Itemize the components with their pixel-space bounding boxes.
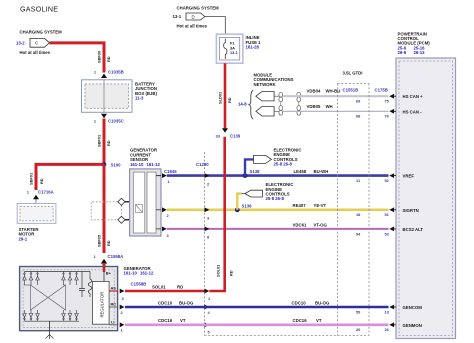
svg-text:SBF01: SBF01 bbox=[97, 134, 102, 147]
svg-text:RD: RD bbox=[177, 284, 183, 289]
svg-text:11: 11 bbox=[356, 178, 361, 183]
wire SBF05 RD (S100 to C1558A) bbox=[97, 164, 112, 253]
svg-text:SIGRTN: SIGRTN bbox=[403, 208, 419, 213]
branch wire to EEC connector 2 bbox=[237, 194, 245, 210]
svg-text:HS CAN -: HS CAN - bbox=[403, 109, 423, 114]
svg-text:SOL01: SOL01 bbox=[216, 264, 221, 277]
wire SBF01 RD branch to starter motor bbox=[29, 164, 105, 190]
generator output arrows and pins bbox=[120, 289, 125, 333]
svg-text:CHARGING SYSTEM: CHARGING SYSTEM bbox=[177, 6, 220, 11]
svg-text:VT: VT bbox=[180, 318, 186, 323]
svg-text:29-1: 29-1 bbox=[19, 236, 28, 241]
regulator to pins lines bbox=[109, 286, 118, 325]
svg-text:LI: LI bbox=[111, 319, 114, 324]
svg-text:LE458: LE458 bbox=[294, 169, 307, 174]
regulator U1 bbox=[92, 281, 109, 324]
wire RE407 YE-VT (SIGRTN) bbox=[167, 203, 389, 210]
generator ground bbox=[46, 321, 54, 339]
svg-text:VDB04: VDB04 bbox=[307, 89, 321, 94]
svg-text:CDC10: CDC10 bbox=[158, 300, 173, 305]
svg-text:WH: WH bbox=[326, 104, 333, 109]
splice node S138 bbox=[243, 169, 261, 178]
pin numbers columns bbox=[356, 99, 390, 333]
svg-text:C1035B: C1035B bbox=[108, 70, 124, 75]
svg-text:13-1: 13-1 bbox=[230, 50, 239, 55]
connector C1558A bbox=[93, 254, 123, 267]
svg-text:59: 59 bbox=[356, 309, 361, 314]
connector C1280 dashed line bbox=[196, 152, 209, 336]
svg-text:VDB05: VDB05 bbox=[307, 104, 321, 109]
svg-text:RD: RD bbox=[229, 270, 234, 276]
svg-text:3.5L GTDI: 3.5L GTDI bbox=[343, 71, 363, 76]
svg-text:2: 2 bbox=[121, 310, 124, 315]
svg-text:BCS2 ALT: BCS2 ALT bbox=[403, 227, 424, 232]
generator diode bridge top row bbox=[23, 272, 90, 281]
clamp diamond upper bbox=[118, 198, 131, 205]
svg-text:1: 1 bbox=[93, 254, 96, 259]
svg-text:GENMON: GENMON bbox=[403, 323, 422, 328]
svg-text:1: 1 bbox=[121, 327, 124, 332]
splice node S136 bbox=[235, 204, 252, 213]
svg-text:25-8 26-8: 25-8 26-8 bbox=[274, 162, 293, 167]
wire VDB05 WH (HS CAN -) bbox=[283, 104, 389, 112]
svg-text:2: 2 bbox=[167, 213, 170, 218]
svg-text:HS CAN +: HS CAN + bbox=[403, 94, 424, 99]
svg-text:GASOLINE: GASOLINE bbox=[20, 5, 58, 13]
svg-text:Hot at all times: Hot at all times bbox=[20, 50, 51, 55]
svg-text:SBF01: SBF01 bbox=[29, 172, 34, 185]
svg-text:B+: B+ bbox=[106, 270, 112, 275]
svg-text:13: 13 bbox=[385, 309, 390, 314]
wire CDC16 VT (LI to GENMON) bbox=[125, 318, 389, 325]
EEC connector 2 (points left) bbox=[245, 182, 294, 201]
svg-text:RD: RD bbox=[227, 97, 232, 103]
svg-text:26: 26 bbox=[356, 327, 361, 332]
svg-text:D: D bbox=[192, 14, 195, 19]
svg-text:161-12: 161-12 bbox=[140, 271, 154, 276]
svg-text:33: 33 bbox=[216, 133, 221, 138]
svg-text:VT: VT bbox=[316, 318, 322, 323]
svg-text:18: 18 bbox=[356, 212, 361, 217]
generator diode terminal circles bbox=[24, 273, 78, 320]
current sensor clamp dashed loop bbox=[91, 202, 121, 220]
svg-text:68: 68 bbox=[356, 114, 361, 119]
svg-text:VT-OG: VT-OG bbox=[314, 222, 328, 227]
svg-text:75: 75 bbox=[385, 99, 390, 104]
wire SLD01 RD (fuse to C139) bbox=[218, 63, 233, 128]
clamp diamond lower bbox=[118, 216, 131, 223]
svg-text:C1558B: C1558B bbox=[131, 281, 147, 286]
svg-text:3: 3 bbox=[167, 233, 170, 238]
svg-text:161-10: 161-10 bbox=[124, 271, 138, 276]
svg-text:RE407: RE407 bbox=[293, 203, 307, 208]
svg-text:YE-VT: YE-VT bbox=[314, 203, 327, 208]
title GASOLINE bbox=[20, 5, 58, 13]
brace bbox=[249, 90, 253, 119]
svg-text:161-10: 161-10 bbox=[130, 162, 144, 167]
svg-text:RD: RD bbox=[106, 56, 111, 62]
svg-text:C175B: C175B bbox=[375, 87, 388, 92]
svg-text:1: 1 bbox=[27, 190, 30, 195]
module communications network label bbox=[238, 72, 294, 106]
svg-text:4: 4 bbox=[208, 310, 211, 315]
wire VDC61 VT-OG (BCS2) bbox=[167, 222, 389, 229]
PCM pin arrows bbox=[389, 94, 396, 327]
charging system D connector (top middle) bbox=[173, 6, 226, 35]
wire SBF30 RD (C connector to C1035B) bbox=[50, 43, 112, 73]
svg-text:3: 3 bbox=[207, 216, 210, 221]
svg-text:BU-WH: BU-WH bbox=[314, 169, 329, 174]
svg-text:S136: S136 bbox=[242, 204, 253, 209]
generator diode bridge bottom row bbox=[23, 310, 79, 321]
svg-text:SOL01: SOL01 bbox=[152, 284, 166, 289]
connector C1035B bbox=[94, 70, 124, 79]
svg-text:1: 1 bbox=[208, 296, 211, 301]
svg-text:WH-BU: WH-BU bbox=[326, 89, 341, 94]
generator current sensor box bbox=[130, 148, 161, 236]
svg-text:REGULATOR: REGULATOR bbox=[100, 292, 105, 318]
C1280 arrows and pins bbox=[205, 173, 212, 334]
svg-text:RD: RD bbox=[39, 178, 44, 184]
connector C139 bbox=[216, 128, 241, 138]
svg-text:RC: RC bbox=[111, 302, 117, 307]
svg-text:GENCOM: GENCOM bbox=[403, 305, 423, 310]
svg-text:SBF30: SBF30 bbox=[97, 51, 102, 63]
svg-text:C1558A: C1558A bbox=[108, 254, 124, 259]
connector C1845 pins bbox=[162, 169, 177, 238]
wire SOL01 RD (C139 down to AS) bbox=[209, 137, 233, 291]
fuse F1 3A symbol bbox=[224, 39, 239, 60]
3.5L GTDI dashed box bbox=[205, 71, 388, 336]
svg-text:94: 94 bbox=[356, 231, 361, 236]
svg-text:14-8: 14-8 bbox=[238, 101, 247, 106]
svg-text:NETWORK: NETWORK bbox=[254, 82, 277, 87]
svg-text:CDC10: CDC10 bbox=[292, 300, 307, 305]
PCM port labels bbox=[403, 94, 424, 328]
svg-text:RD: RD bbox=[106, 140, 111, 146]
svg-text:1: 1 bbox=[94, 70, 97, 75]
svg-text:Hot at all times: Hot at all times bbox=[177, 24, 208, 29]
svg-text:C1845: C1845 bbox=[164, 169, 177, 174]
svg-text:26-6: 26-6 bbox=[398, 50, 407, 55]
MCN connector 1 (points left) bbox=[256, 92, 281, 101]
MCN connector 2 (points left) bbox=[256, 107, 281, 116]
svg-text:C1716A: C1716A bbox=[38, 190, 54, 195]
svg-text:C139: C139 bbox=[230, 133, 241, 138]
EEC connector 1 (points right) bbox=[254, 148, 302, 167]
svg-text:C1035C: C1035C bbox=[108, 119, 124, 124]
svg-text:1: 1 bbox=[94, 119, 97, 124]
svg-text:13-2: 13-2 bbox=[16, 40, 25, 45]
svg-text:BU-OG: BU-OG bbox=[179, 300, 194, 305]
svg-text:1: 1 bbox=[168, 179, 171, 184]
svg-text:RD: RD bbox=[106, 240, 111, 246]
twisted pair symbol 2 bbox=[297, 92, 301, 115]
wire CDC10 BU-OG (RC to GENCOM) bbox=[125, 300, 389, 307]
generator stator windings bbox=[25, 280, 77, 310]
generator capacitor bbox=[50, 272, 86, 298]
svg-text:3: 3 bbox=[122, 296, 125, 301]
svg-text:S138: S138 bbox=[250, 169, 261, 174]
svg-text:11-3: 11-3 bbox=[135, 96, 144, 101]
svg-text:CHARGING SYSTEM: CHARGING SYSTEM bbox=[20, 30, 63, 35]
svg-text:25-8 26-8: 25-8 26-8 bbox=[266, 196, 285, 201]
svg-text:13-1: 13-1 bbox=[173, 14, 182, 19]
svg-text:26-13: 26-13 bbox=[414, 50, 426, 55]
PCM box bbox=[396, 31, 456, 338]
svg-text:VREF: VREF bbox=[403, 174, 415, 179]
branch wire to EEC connector 1 bbox=[245, 159, 254, 175]
wire LE458 BU-WH (VREF) bbox=[167, 169, 389, 176]
svg-text:S100: S100 bbox=[111, 162, 122, 167]
svg-text:53: 53 bbox=[385, 231, 390, 236]
splice node S100 bbox=[102, 162, 122, 167]
twisted pair symbol 1 bbox=[279, 92, 283, 115]
svg-text:5: 5 bbox=[208, 329, 211, 334]
wire VDB04 WH-BU (HS CAN +) bbox=[283, 89, 389, 97]
svg-text:52: 52 bbox=[385, 178, 390, 183]
connector C1716A bbox=[27, 190, 54, 204]
svg-text:SBF05: SBF05 bbox=[97, 234, 102, 247]
svg-text:SLD01: SLD01 bbox=[218, 91, 223, 104]
generator field coil bbox=[88, 272, 91, 298]
svg-text:8: 8 bbox=[207, 235, 210, 240]
starter motor box bbox=[17, 204, 56, 242]
battery junction box BJB bbox=[82, 80, 158, 113]
svg-text:69: 69 bbox=[356, 99, 361, 104]
svg-text:BU-OG: BU-OG bbox=[315, 300, 330, 305]
svg-text:CDC16: CDC16 bbox=[158, 318, 173, 323]
generator B+ terminal bbox=[104, 267, 112, 281]
connector C1035C bbox=[94, 114, 124, 124]
svg-text:C1280: C1280 bbox=[196, 162, 209, 167]
connector C (charging system feed) bbox=[16, 30, 62, 56]
svg-text:2: 2 bbox=[207, 181, 210, 186]
inline fuse 1 box bbox=[216, 34, 261, 63]
svg-text:26: 26 bbox=[385, 327, 390, 332]
wire SBF01 RD (C1035C to S100) bbox=[97, 119, 112, 165]
svg-text:51: 51 bbox=[385, 212, 390, 217]
svg-text:AS: AS bbox=[111, 286, 117, 291]
svg-text:161-12: 161-12 bbox=[147, 162, 161, 167]
svg-text:76: 76 bbox=[385, 114, 390, 119]
svg-text:161-28: 161-28 bbox=[246, 45, 260, 50]
generator box bbox=[20, 266, 154, 331]
svg-text:VDC61: VDC61 bbox=[293, 222, 307, 227]
svg-text:CDC16: CDC16 bbox=[293, 318, 308, 323]
wire SOL01 RD (generator AS segment) bbox=[125, 281, 205, 291]
svg-text:C1551B: C1551B bbox=[343, 87, 359, 92]
